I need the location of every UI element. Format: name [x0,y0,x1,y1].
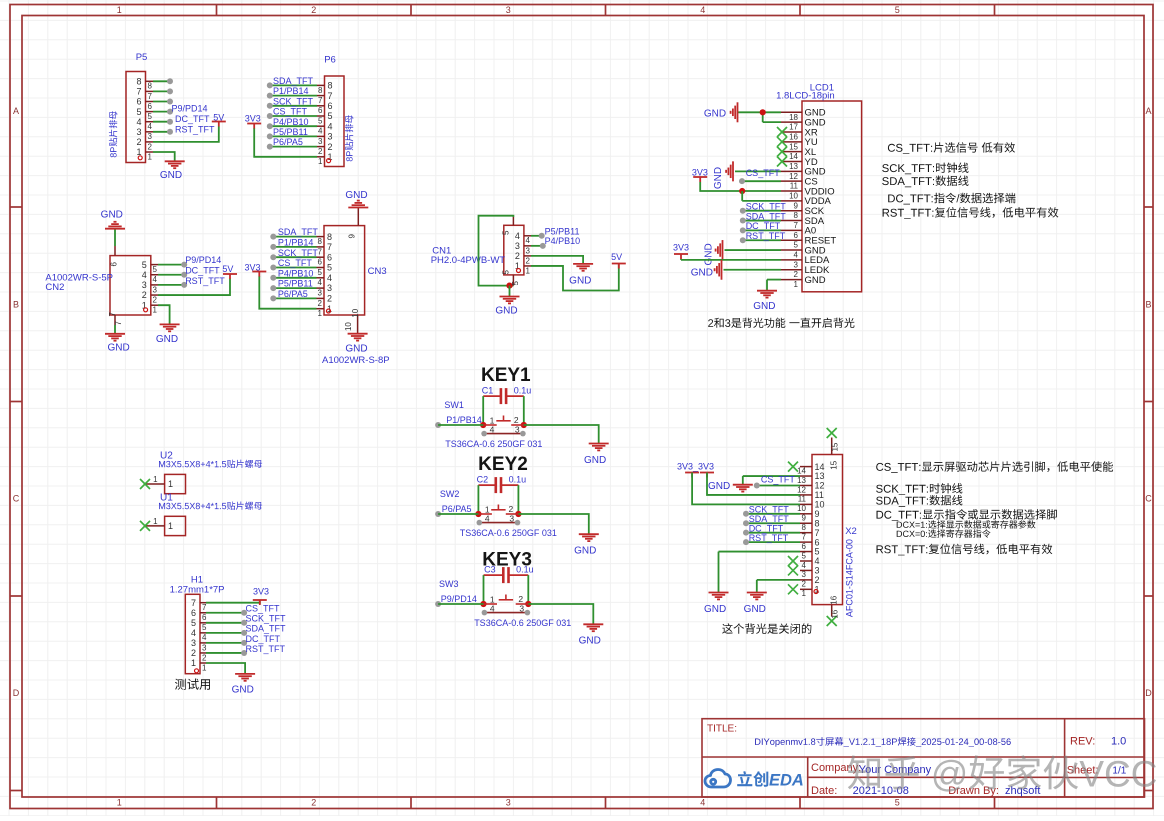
svg-text:1: 1 [153,475,158,484]
svg-text:SDA_TFT: SDA_TFT [278,227,319,237]
svg-text:SW1: SW1 [444,400,464,410]
svg-text:P9/PD14: P9/PD14 [441,594,477,604]
svg-text:3: 3 [802,570,807,579]
svg-text:4: 4 [318,278,323,287]
svg-text:0.1u: 0.1u [514,385,532,395]
svg-text:2: 2 [311,5,316,15]
svg-text:P6/PA5: P6/PA5 [442,504,472,514]
svg-text:KEY1: KEY1 [481,365,531,386]
svg-text:5: 5 [511,281,520,286]
svg-text:3V3: 3V3 [673,243,689,253]
svg-text:9: 9 [794,201,799,210]
svg-text:P6: P6 [324,55,336,66]
svg-text:3: 3 [519,604,524,614]
svg-text:4: 4 [490,425,495,435]
svg-text:DC_TFT: DC_TFT [175,114,210,124]
svg-text:1: 1 [802,589,807,598]
svg-text:14: 14 [797,466,806,475]
svg-text:SCK_TFT: SCK_TFT [746,201,787,211]
svg-text:17: 17 [789,123,798,132]
svg-text:8: 8 [148,82,153,91]
svg-text:3: 3 [202,643,207,652]
svg-text:1: 1 [318,157,323,166]
svg-text:11: 11 [798,495,807,504]
svg-text:7: 7 [202,603,207,612]
svg-text:6: 6 [802,542,807,551]
svg-text:SW3: SW3 [439,579,459,589]
svg-text:3: 3 [136,127,141,137]
svg-text:P1/PB14: P1/PB14 [446,415,482,425]
svg-text:C: C [1145,494,1152,504]
svg-text:5: 5 [318,268,323,277]
svg-text:4: 4 [142,270,147,280]
svg-text:6: 6 [148,102,153,111]
svg-text:D: D [13,688,20,698]
svg-text:3: 3 [509,514,514,524]
svg-text:GND: GND [805,275,826,286]
svg-text:6: 6 [327,252,332,262]
svg-text:3: 3 [506,798,511,808]
svg-text:3: 3 [327,283,332,293]
svg-text:7: 7 [114,321,123,326]
svg-text:B: B [1145,300,1151,310]
svg-text:C: C [13,494,20,504]
svg-text:3: 3 [328,132,333,142]
svg-text:REV:: REV: [1070,735,1095,747]
svg-text:16: 16 [831,609,840,618]
svg-text:C3: C3 [484,565,496,575]
svg-text:7: 7 [794,221,799,230]
svg-text:4: 4 [136,117,141,127]
svg-text:3: 3 [191,638,196,648]
svg-text:2: 2 [318,147,323,156]
svg-text:7: 7 [328,91,333,101]
svg-text:6: 6 [136,97,141,107]
svg-text:3: 3 [318,289,323,298]
svg-text:8: 8 [802,523,807,532]
svg-text:1/1: 1/1 [1112,766,1126,777]
svg-text:P9/PD14: P9/PD14 [185,255,221,265]
svg-text:U2: U2 [160,450,173,461]
svg-text:5: 5 [502,270,511,275]
svg-text:11: 11 [790,182,799,191]
svg-text:PH2.0-4PWB-WT: PH2.0-4PWB-WT [431,255,506,266]
svg-text:5: 5 [802,551,807,560]
svg-text:CS_TFT: CS_TFT [746,168,781,178]
svg-text:TS36CA-0.6 250GF 031: TS36CA-0.6 250GF 031 [445,439,542,449]
svg-text:CS_TFT: CS_TFT [273,107,308,117]
svg-text:P4/PB10: P4/PB10 [273,117,309,127]
svg-text:1.27mm1*7P: 1.27mm1*7P [170,585,225,596]
svg-text:B: B [13,300,19,310]
svg-text:16: 16 [830,595,839,604]
svg-text:5: 5 [153,265,158,274]
svg-text:8: 8 [318,86,323,95]
svg-text:CS_TFT: CS_TFT [246,604,281,614]
svg-text:5: 5 [148,112,153,121]
svg-text:7: 7 [318,247,323,256]
svg-text:U1: U1 [160,492,173,503]
svg-text:5: 5 [136,107,141,117]
svg-text:3V3: 3V3 [244,262,260,272]
svg-text:GND: GND [232,684,254,695]
svg-text:2: 2 [518,594,523,604]
svg-text:TS36CA-0.6 250GF 031: TS36CA-0.6 250GF 031 [474,618,571,628]
svg-text:3: 3 [148,132,153,141]
svg-text:SDA_TFT: SDA_TFT [273,76,314,86]
svg-text:2: 2 [311,798,316,808]
svg-text:13: 13 [797,476,806,485]
svg-text:P6/PA5: P6/PA5 [278,289,308,299]
svg-text:12: 12 [815,481,825,491]
svg-text:6: 6 [191,608,196,618]
svg-text:C2: C2 [477,474,489,484]
svg-text:4: 4 [700,5,705,15]
svg-text:4: 4 [191,628,196,638]
svg-text:P5/PB11: P5/PB11 [273,127,308,137]
svg-text:1.0: 1.0 [1111,735,1126,747]
svg-text:8: 8 [327,232,332,242]
svg-text:RST_TFT: RST_TFT [749,533,789,543]
svg-text:18: 18 [789,113,798,122]
svg-text:5V: 5V [213,113,224,123]
svg-text:GND: GND [107,342,129,353]
svg-text:2: 2 [142,290,147,300]
svg-text:GND: GND [704,604,726,615]
svg-text:1: 1 [318,309,323,318]
svg-text:KEY2: KEY2 [478,454,528,475]
svg-text:7: 7 [802,533,807,542]
svg-text:9: 9 [802,514,807,523]
svg-text:5: 5 [895,5,900,15]
svg-text:3: 3 [526,246,531,255]
svg-text:SW2: SW2 [440,489,460,499]
svg-text:TS36CA-0.6 250GF 031: TS36CA-0.6 250GF 031 [460,528,557,538]
svg-text:15: 15 [830,460,839,469]
svg-text:GND: GND [753,301,775,312]
svg-text:C1: C1 [482,385,494,395]
svg-text:DC_TFT: DC_TFT [749,524,784,534]
svg-text:1: 1 [153,517,158,526]
svg-text:1: 1 [168,479,173,489]
svg-text:6: 6 [318,258,323,267]
svg-text:AFC01-S14FCA-00: AFC01-S14FCA-00 [845,539,855,617]
svg-text:P4/PB10: P4/PB10 [278,268,314,278]
svg-text:4: 4 [490,604,495,614]
svg-text:4: 4 [318,127,323,136]
svg-text:GND: GND [584,455,606,466]
svg-text:10: 10 [815,500,825,510]
svg-text:4: 4 [153,275,158,284]
svg-text:3: 3 [142,280,147,290]
svg-text:2: 2 [328,142,333,152]
svg-text:3V3: 3V3 [692,168,708,178]
svg-text:5: 5 [328,111,333,121]
svg-text:GND: GND [691,267,713,278]
svg-text:TITLE:: TITLE: [707,724,737,735]
svg-text:P1/PB14: P1/PB14 [278,238,314,248]
svg-text:GND: GND [744,604,766,615]
svg-text:4: 4 [526,236,531,245]
svg-text:2: 2 [514,415,519,425]
svg-text:3V3_3V3: 3V3_3V3 [677,461,714,471]
svg-text:15: 15 [789,142,798,151]
svg-text:7: 7 [148,92,153,101]
svg-text:5: 5 [191,618,196,628]
svg-text:RST_TFT: RST_TFT [185,276,225,286]
svg-text:A1002WR-S-8P: A1002WR-S-8P [322,355,390,366]
svg-text:2: 2 [153,296,158,305]
svg-text:7: 7 [108,312,117,317]
svg-text:1.8LCD-18pin: 1.8LCD-18pin [776,91,835,102]
svg-text:3: 3 [318,137,323,146]
svg-text:SDA_TFT: SDA_TFT [746,211,787,221]
svg-text:SCK_TFT: SCK_TFT [278,248,319,258]
svg-text:1: 1 [148,152,153,161]
svg-text:A: A [1145,106,1151,116]
svg-text:5: 5 [327,263,332,273]
svg-text:10: 10 [789,192,798,201]
svg-text:12: 12 [797,485,806,494]
svg-text:GND: GND [704,243,715,265]
svg-text:X2: X2 [845,526,857,537]
svg-text:D: D [1145,688,1152,698]
svg-text:P4/PB10: P4/PB10 [545,236,581,246]
svg-text:2: 2 [526,256,531,265]
svg-text:SDA_TFT: SDA_TFT [246,624,287,634]
svg-text:GND: GND [101,210,123,221]
svg-text:8: 8 [328,81,333,91]
svg-text:4: 4 [794,251,799,260]
svg-text:10: 10 [797,504,806,513]
svg-text:2: 2 [191,648,196,658]
svg-text:GND: GND [704,109,726,120]
svg-text:DC_TFT: DC_TFT [185,266,220,276]
svg-text:1: 1 [202,663,207,672]
svg-text:1: 1 [794,280,799,289]
svg-text:0.1u: 0.1u [509,474,527,484]
svg-text:3: 3 [153,285,158,294]
svg-text:4: 4 [815,556,820,566]
svg-text:1: 1 [153,306,158,315]
svg-text:3: 3 [506,5,511,15]
svg-text:5: 5 [794,241,799,250]
svg-text:5: 5 [502,230,511,235]
svg-text:10: 10 [344,322,353,331]
svg-text:5: 5 [202,623,207,632]
svg-text:4: 4 [515,231,520,241]
svg-text:4: 4 [328,121,333,131]
svg-text:GND: GND [569,275,591,286]
svg-text:5V: 5V [611,252,622,262]
svg-text:2: 2 [802,580,807,589]
svg-text:9: 9 [348,234,357,239]
svg-text:Date:: Date: [811,785,837,797]
svg-text:4: 4 [485,514,490,524]
svg-text:GND: GND [708,481,730,492]
svg-text:P9/PD14: P9/PD14 [172,104,208,114]
svg-text:GND: GND [574,546,596,557]
svg-text:3V3: 3V3 [253,587,269,597]
svg-text:GND: GND [713,167,724,189]
svg-text:8: 8 [318,237,323,246]
svg-text:2: 2 [327,294,332,304]
svg-text:P1/PB14: P1/PB14 [273,86,309,96]
svg-text:6: 6 [318,106,323,115]
svg-text:7: 7 [327,242,332,252]
svg-text:2: 2 [515,251,520,261]
svg-text:2: 2 [815,575,820,585]
svg-text:5: 5 [318,116,323,125]
svg-text:P5: P5 [136,52,148,63]
svg-text:5V: 5V [222,264,233,274]
svg-text:16: 16 [789,133,798,142]
svg-text:2: 2 [794,270,799,279]
svg-text:6: 6 [109,262,118,267]
svg-text:6: 6 [328,101,333,111]
svg-text:1: 1 [117,798,122,808]
svg-text:4: 4 [327,273,332,283]
svg-text:3: 3 [794,260,799,269]
svg-text:15: 15 [831,442,840,451]
svg-text:SCK_TFT: SCK_TFT [273,96,314,106]
svg-text:CS_TFT: CS_TFT [278,258,313,268]
svg-text:1: 1 [191,658,196,668]
svg-text:7: 7 [318,96,323,105]
svg-text:2: 2 [318,299,323,308]
svg-text:2: 2 [136,137,141,147]
svg-text:13: 13 [789,162,798,171]
svg-text:12: 12 [789,172,798,181]
svg-text:GND: GND [345,190,367,201]
svg-text:3: 3 [515,425,520,435]
svg-text:5: 5 [895,798,900,808]
svg-text:7: 7 [136,87,141,97]
svg-text:7: 7 [191,598,196,608]
svg-text:CS_TFT: CS_TFT [761,475,796,485]
svg-text:GND: GND [156,334,178,345]
svg-text:6: 6 [202,613,207,622]
svg-text:2: 2 [202,653,207,662]
svg-text:GND: GND [495,306,517,317]
svg-text:1: 1 [117,5,122,15]
svg-text:2: 2 [509,504,514,514]
svg-text:P5/PB11: P5/PB11 [278,279,313,289]
svg-text:4: 4 [148,122,153,131]
svg-text:6: 6 [794,231,799,240]
svg-text:4: 4 [700,798,705,808]
svg-text:GND: GND [345,344,367,355]
svg-text:4: 4 [802,561,807,570]
svg-text:10: 10 [351,308,360,317]
svg-text:0.1u: 0.1u [516,565,534,575]
svg-text:8: 8 [136,77,141,87]
svg-text:1: 1 [168,521,173,531]
svg-text:GND: GND [579,636,601,647]
svg-text:2: 2 [148,142,153,151]
svg-text:14: 14 [789,152,798,161]
svg-text:8: 8 [794,211,799,220]
svg-text:3V3: 3V3 [245,114,261,124]
svg-text:RST_TFT: RST_TFT [175,124,215,134]
svg-text:DC_TFT: DC_TFT [746,221,781,231]
svg-text:SCK_TFT: SCK_TFT [246,614,287,624]
svg-text:DC_TFT: DC_TFT [246,634,281,644]
svg-text:CN3: CN3 [368,266,387,277]
svg-text:RST_TFT: RST_TFT [246,644,286,654]
svg-text:GND: GND [160,170,182,181]
svg-text:3: 3 [515,241,520,251]
svg-text:4: 4 [202,633,207,642]
svg-text:1: 1 [526,266,531,275]
svg-text:RST_TFT: RST_TFT [746,231,786,241]
svg-text:CN2: CN2 [45,282,64,293]
svg-text:7: 7 [815,528,820,538]
svg-text:5: 5 [142,260,147,270]
svg-text:A: A [13,106,19,116]
svg-text:P6/PA5: P6/PA5 [273,137,303,147]
svg-text:EDA: EDA [769,772,804,790]
